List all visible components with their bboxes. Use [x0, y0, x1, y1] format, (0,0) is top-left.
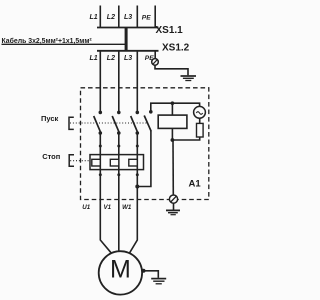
heater element 3 [129, 159, 138, 166]
wire PE to earth [155, 65, 188, 75]
earth ground (top right) [181, 75, 197, 77]
PE branch from XS1.2 [152, 51, 196, 81]
thermal overload relay [90, 155, 144, 170]
pin L2 of XS1.1 [118, 6, 120, 28]
svg-text:L3: L3 [124, 55, 132, 62]
wire terminal to earth [173, 203, 175, 210]
cable bar [125, 28, 128, 52]
motor earth connection [142, 269, 167, 284]
wire resistor to coil-bottom node [172, 137, 199, 140]
svg-text:V1: V1 [104, 204, 112, 211]
wire from coil bottom [171, 128, 173, 140]
XS1.2 body line [97, 50, 159, 52]
wire phase L2 from XS1.2 to contact [118, 51, 120, 111]
heater element 1 [92, 159, 101, 166]
motor lead U1 [100, 200, 111, 254]
control branch top wire [151, 103, 200, 110]
cable label leader line [2, 43, 127, 45]
resistor [172, 118, 203, 140]
motor lead V1 [118, 200, 120, 252]
wire phase L3 from XS1.2 to contact [136, 51, 138, 111]
signal lamp [194, 106, 206, 118]
svg-text:L2: L2 [107, 55, 115, 62]
node: junction on phase L3 [135, 185, 139, 189]
svg-text:XS1.1: XS1.1 [156, 25, 184, 36]
connector XS1.2 [90, 43, 190, 63]
pin PE of XS1.1 [154, 6, 156, 28]
svg-text:Кабель 3х2,5мм²+1х1,5мм²: Кабель 3х2,5мм²+1х1,5мм² [2, 37, 93, 45]
contactor main contact 1 [94, 111, 102, 135]
button Пуск (start) [41, 114, 148, 129]
svg-text:L2: L2 [107, 14, 115, 21]
earth ground (bottom) [166, 210, 180, 214]
wire contact3 to motor lead [136, 133, 138, 200]
svg-text:A1: A1 [189, 179, 202, 190]
contactor main contact 3 [131, 111, 139, 135]
pin L3 of XS1.1 [136, 6, 138, 28]
terminal dots above relay [99, 145, 139, 148]
svg-text:W1: W1 [122, 204, 132, 211]
wire PE [154, 51, 156, 59]
contactor main contact 2 [112, 111, 120, 135]
terminal dots below relay [99, 173, 139, 176]
svg-text:L1: L1 [90, 55, 98, 62]
svg-text:XS1.2: XS1.2 [162, 43, 190, 54]
motor M1 [99, 251, 142, 294]
button actuator bracket [69, 117, 74, 129]
wire to coil top [171, 103, 173, 115]
enclosure box A1 (dashed) [81, 88, 209, 200]
wire contact1 to motor lead [99, 133, 101, 200]
svg-text:M: M [110, 255, 131, 283]
mechanical link (dotted) [70, 122, 148, 124]
XS1.1 body line [97, 27, 159, 29]
node: coil top junction [171, 101, 175, 105]
earth ground (motor) [151, 278, 166, 280]
node: coil bottom junction [171, 138, 175, 142]
connector XS1.1 [90, 6, 184, 37]
wire to bottom terminal [172, 140, 174, 195]
contactor coil [158, 103, 187, 140]
wire aux contact to phase L3 [137, 131, 151, 187]
svg-text:PE: PE [142, 15, 151, 22]
wire phase L1 from XS1.2 to contact [99, 51, 101, 111]
terminal circle on A1 boundary [169, 195, 177, 203]
svg-text:U1: U1 [82, 204, 90, 211]
wire contact2 to motor lead [118, 133, 120, 200]
svg-text:Пуск: Пуск [41, 114, 59, 123]
AC tilde inside lamp [196, 112, 202, 115]
heater element 2 [110, 159, 119, 166]
svg-text:L3: L3 [124, 14, 132, 21]
mechanical link (dotted) [70, 160, 90, 162]
svg-text:L1: L1 [90, 14, 98, 21]
motor lead W1 [129, 200, 137, 254]
cable (single-line) [2, 28, 127, 52]
terminal circle PE [152, 59, 159, 66]
svg-text:Стоп: Стоп [42, 152, 60, 161]
pin L1 of XS1.1 [99, 6, 101, 28]
button Стоп (stop) [42, 152, 90, 166]
auxiliary contact [144, 110, 152, 131]
relay body [90, 155, 144, 170]
button actuator bracket [69, 155, 74, 166]
